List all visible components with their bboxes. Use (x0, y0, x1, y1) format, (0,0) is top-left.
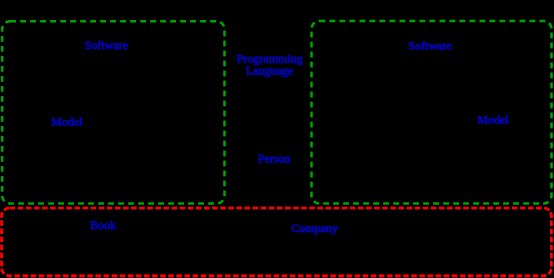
svg-text:Book: Book (90, 218, 116, 232)
svg-text:Person: Person (258, 152, 291, 166)
svg-text:Model: Model (51, 114, 83, 128)
svg-text:Software: Software (408, 39, 451, 53)
svg-text:Language: Language (246, 63, 293, 77)
svg-text:Company: Company (291, 221, 338, 235)
svg-text:Software: Software (85, 38, 128, 52)
cluster box: right green dashed (Software/Model group) (312, 21, 552, 204)
svg-text:Model: Model (477, 112, 509, 126)
cluster box: left green dashed (Software/Model group) (2, 21, 224, 203)
cluster box: bottom red dashed (Book/Company group) (2, 208, 552, 276)
